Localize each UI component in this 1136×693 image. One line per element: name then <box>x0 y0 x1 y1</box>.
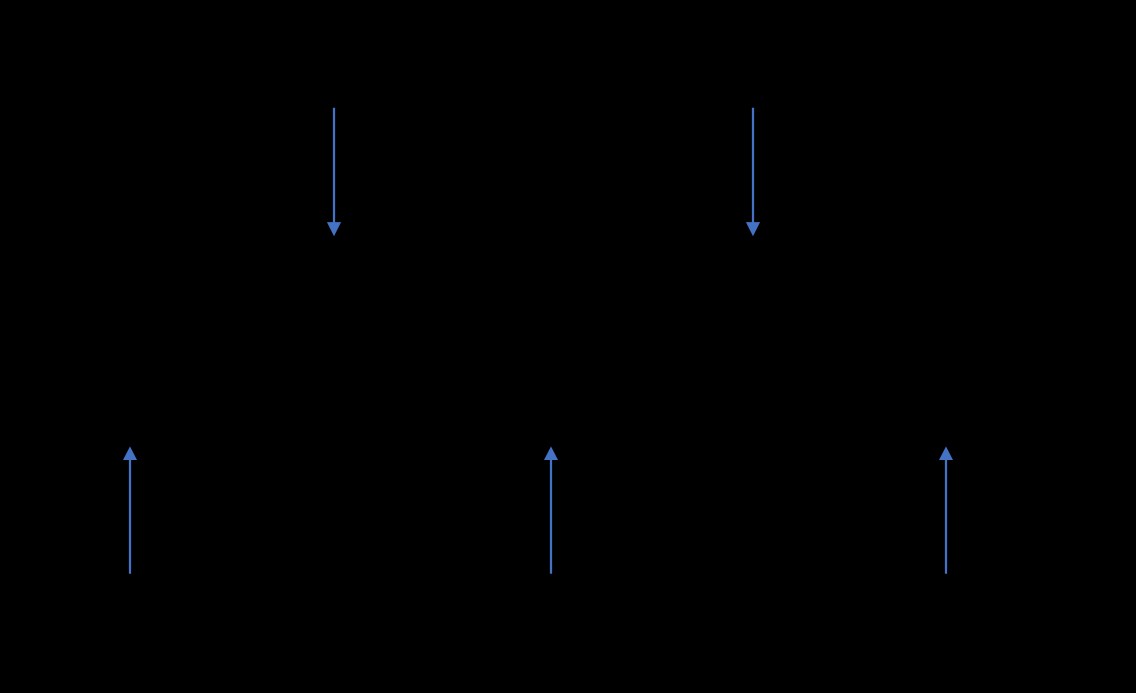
current arrow I1 (down, left series branch) <box>327 108 341 237</box>
voltage arrow V1 (up, left shunt branch) <box>123 446 137 573</box>
current arrow I2 (down, right series branch) <box>746 108 760 237</box>
voltage arrow V2 (up, middle shunt branch) <box>544 446 558 573</box>
voltage arrow V3 (up, right shunt branch) <box>939 446 953 573</box>
